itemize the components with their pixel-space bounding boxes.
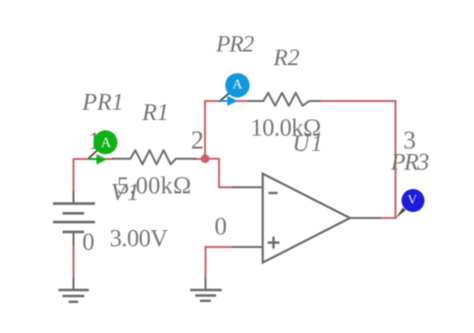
node 2 junction dot [201,154,210,163]
wire: node 2 up to top corner [204,102,206,159]
label PR2 [216,36,254,52]
op-amp plus symbol [268,237,280,249]
probe PR1 letter A [101,138,111,147]
probe PR1 pointer line [89,151,98,159]
ground symbol (battery) [59,277,89,302]
value V1 3.00V [111,230,168,247]
label PR1 [82,94,121,110]
label PR3 [391,154,429,170]
probe PR1 arrow [89,154,107,164]
value R2 10.0kohm [253,119,320,136]
wire: R2 right to top-right corner [321,100,396,102]
probe PR2 letter A [233,79,243,88]
battery V1 symbol [53,191,95,247]
label V1 [112,184,137,201]
label R1 [142,104,166,120]
op-amp minus symbol [269,192,278,194]
resistor R2 [248,93,321,106]
wire: output to right corner [380,217,397,219]
probe PR3 circle [402,189,425,212]
node 1 label (behind PR1 probe) [90,132,99,149]
probe PR2 arrow [219,96,238,106]
probe PR3 letter V [408,195,417,204]
node 0 label (op-amp) [215,218,226,235]
probe PR2 pointer line [219,93,230,102]
resistor R1 [112,150,197,164]
op-amp U1 triangle [263,174,350,263]
label U1 [295,136,320,152]
label R2 [273,50,299,66]
probe PR1 circle [94,130,118,154]
probe PR3 pointer [396,207,406,218]
op-amp U1 inverting input lead [232,186,263,188]
probe PR2 circle [225,73,249,97]
wire: right vertical net 3 [395,100,397,218]
node 3 label [404,132,415,149]
node 0 label (battery) [83,234,93,251]
wire: V1 bottom to ground [73,245,75,278]
wire: non-inverting input branch [206,247,233,278]
wire: R1 right to node 2 [194,158,205,160]
node 2 label [192,131,202,148]
wire: V1 top to input corner (left vertical) [73,160,75,192]
wire: node 2 to inverting input [205,159,232,188]
op-amp U1 non-inverting input lead [232,246,263,248]
ground symbol (op-amp non-inverting input) [190,277,222,301]
op-amp U1 output lead [350,217,381,219]
wire: top corner to R2 left [204,100,248,102]
wire: input horizontal net 1 (corner to R1) [73,158,115,160]
value R1 5.00kohm [118,176,190,193]
